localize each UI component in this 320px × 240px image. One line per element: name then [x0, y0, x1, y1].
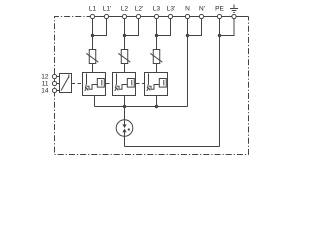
label L3' [167, 6, 175, 13]
svg-text:L2': L2' [135, 6, 143, 13]
node L2 junction [123, 34, 126, 37]
remote signalling changeover contact box [57, 74, 72, 93]
svg-text:11: 11 [42, 81, 49, 88]
svg-text:12: 12 [41, 74, 49, 81]
label 14 [41, 88, 49, 95]
wire N' down and across [188, 17, 202, 36]
varistor L1 [86, 50, 98, 64]
wire L1' down and across [93, 17, 107, 36]
label PE [215, 6, 224, 13]
wire L3 down [156, 17, 158, 50]
wire PE bottom horizontal [125, 146, 220, 148]
terminal 14 [52, 88, 56, 92]
wire PE down [219, 17, 221, 147]
wire L2 down [124, 17, 126, 50]
bottom rail wire [95, 106, 188, 108]
top busbar wire through terminals [93, 16, 249, 18]
svg-text:14: 14 [41, 88, 49, 95]
wire N down to bottom rail [187, 17, 189, 107]
wire disconnector 1 to bottom rail [94, 96, 96, 107]
svg-text:PE: PE [215, 6, 224, 13]
enclosure border (dash-dot) [55, 17, 249, 155]
label N [185, 6, 190, 13]
label L1 [89, 6, 97, 13]
node rail junction at L2 column [123, 105, 126, 108]
varistor L2 [118, 50, 130, 64]
terminal L1' [104, 14, 108, 18]
wire disconnector 3 to bottom rail [156, 96, 158, 107]
wire varistor L1 to disconnector 1 [92, 64, 94, 74]
terminal L2' [136, 14, 140, 18]
node rail junction at L3 column [155, 105, 158, 108]
terminal L2 [122, 14, 126, 18]
label 12 [41, 74, 49, 81]
mechanical linkage dashed wire [72, 83, 146, 85]
node N junction [186, 34, 189, 37]
node L1 junction [91, 34, 94, 37]
wire disconnector 2 to bottom rail [124, 96, 126, 107]
svg-text:L1: L1 [89, 6, 97, 13]
wire L1 down [92, 17, 94, 50]
label N' [199, 6, 205, 13]
gas discharge tube N-PE spark gap [116, 120, 133, 137]
varistor L3 [150, 50, 162, 64]
wire L3' down and across [157, 17, 171, 36]
svg-text:L3: L3 [153, 6, 161, 13]
wire earth terminal down and across [220, 17, 235, 36]
wire spark gap to PE line [124, 136, 126, 146]
wire varistor L2 to disconnector 2 [124, 64, 126, 74]
wire rail to spark gap [124, 107, 126, 120]
terminal PE [217, 14, 221, 18]
terminal earth [232, 14, 236, 18]
label L2 [121, 6, 129, 13]
terminal N' [199, 14, 203, 18]
label 11 [42, 81, 49, 88]
earth symbol [230, 5, 238, 13]
terminal 11 [52, 81, 56, 85]
wire L2' down and across [125, 17, 139, 36]
svg-text:L3': L3' [167, 6, 175, 13]
terminal N [185, 14, 189, 18]
svg-text:N': N' [199, 6, 205, 13]
terminal L3' [168, 14, 172, 18]
terminal L1 [90, 14, 94, 18]
node L3 junction [155, 34, 158, 37]
label L3 [153, 6, 161, 13]
node PE junction [218, 34, 221, 37]
terminal 12 [52, 74, 56, 78]
label L2' [135, 6, 143, 13]
terminal L3 [154, 14, 158, 18]
svg-text:L2: L2 [121, 6, 129, 13]
disconnector box 1 [83, 73, 106, 96]
disconnector box 2 [113, 73, 136, 96]
wire varistor L3 to disconnector 3 [156, 64, 158, 74]
svg-text:N: N [185, 6, 190, 13]
label L1' [103, 6, 111, 13]
disconnector box 3 [145, 73, 168, 96]
svg-text:L1': L1' [103, 6, 111, 13]
